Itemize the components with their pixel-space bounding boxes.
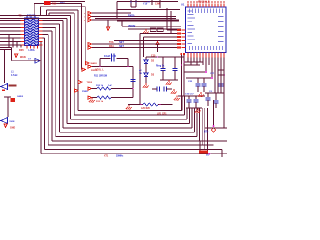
net port arrow bbox=[88, 12, 92, 15]
net port arrow down bbox=[107, 27, 110, 30]
connector J1 bbox=[0, 84, 8, 90]
wire down bbox=[139, 34, 141, 105]
junction bbox=[205, 71, 207, 73]
net port arrow bbox=[88, 96, 92, 99]
pin box U1 bbox=[177, 29, 181, 31]
svg-text:U1: U1 bbox=[181, 3, 185, 7]
wire bbox=[20, 45, 22, 48]
wire bbox=[195, 77, 207, 79]
net port arrow bbox=[75, 89, 79, 92]
wire bbox=[217, 62, 219, 93]
junction bbox=[157, 56, 159, 58]
transformer T1 bottom pins bbox=[27, 46, 38, 49]
ground bbox=[195, 108, 201, 113]
wire bbox=[122, 25, 181, 27]
wire bbox=[199, 141, 201, 151]
wire bus rise bbox=[186, 108, 188, 119]
wire to T1 bbox=[0, 41, 21, 43]
wire bbox=[117, 20, 179, 22]
wire down bbox=[143, 37, 145, 57]
svg-text:R11 10R/1W: R11 10R/1W bbox=[94, 75, 108, 77]
wire bbox=[0, 47, 12, 49]
wire bus bottom bbox=[48, 144, 213, 146]
wire bbox=[215, 103, 217, 108]
svg-text:25MHz: 25MHz bbox=[116, 156, 124, 157]
net port arrow bbox=[88, 46, 92, 49]
wire bus horizontal bbox=[43, 27, 56, 29]
wire bus horizontal bbox=[43, 34, 49, 36]
wire bus rise bbox=[206, 108, 208, 154]
wire bbox=[184, 71, 206, 73]
wire bus vertical bbox=[44, 38, 46, 149]
wire bus horizontal bbox=[43, 37, 45, 39]
wire U1 pin down bbox=[190, 58, 192, 66]
capacitor C19 bbox=[193, 100, 198, 102]
wire bus rise bbox=[183, 96, 185, 115]
junction bbox=[181, 64, 183, 66]
svg-text:IP101A LF: IP101A LF bbox=[198, 1, 210, 4]
svg-text:BT+: BT+ bbox=[204, 131, 209, 133]
component box bbox=[150, 28, 156, 32]
svg-text:GND2: GND2 bbox=[17, 96, 24, 98]
wire bus vertical bbox=[73, 13, 75, 115]
svg-text:_NET: _NET bbox=[117, 46, 124, 48]
resistor R12 bbox=[97, 87, 111, 90]
wire bbox=[223, 62, 225, 93]
pin box U1 bbox=[177, 43, 181, 45]
capacitor C13 bbox=[172, 69, 177, 71]
wire bus bottom bbox=[41, 153, 227, 155]
wire bbox=[116, 2, 118, 19]
ground bbox=[171, 89, 177, 94]
wire bbox=[92, 97, 98, 99]
wire bbox=[218, 74, 224, 76]
wire TXA_NET bbox=[92, 43, 182, 45]
wire to T1 bbox=[0, 44, 21, 46]
U1 pin names right bbox=[218, 16, 224, 42]
wire to T1 bbox=[0, 20, 21, 22]
wire bbox=[223, 93, 225, 128]
pin stub bbox=[180, 53, 182, 55]
ground bbox=[143, 83, 149, 88]
net diamond bbox=[211, 128, 216, 133]
wire bbox=[0, 15, 71, 17]
wire bbox=[8, 35, 10, 48]
wire bbox=[166, 8, 168, 30]
svg-text:TXD2: TXD2 bbox=[87, 82, 93, 84]
net port arrow bbox=[78, 81, 82, 84]
wire T1 pin bbox=[17, 41, 21, 43]
wire bus vertical bbox=[58, 24, 60, 132]
wire to U1 bbox=[167, 29, 181, 31]
wire bbox=[99, 59, 101, 67]
wire bus bottom bbox=[56, 136, 197, 138]
svg-text:LX5A: LX5A bbox=[29, 49, 35, 52]
wire TXD bbox=[92, 16, 177, 18]
wire U1 pin down bbox=[205, 58, 207, 73]
U1 bottom pins bbox=[188, 53, 224, 58]
U1 pin names left bbox=[188, 11, 196, 44]
capacitor C21 bbox=[205, 98, 210, 100]
wire to U1 bbox=[140, 33, 181, 35]
wire RXA_NET bbox=[92, 47, 182, 49]
wire bus bottom bbox=[74, 114, 184, 116]
wire bus vertical bbox=[62, 21, 64, 128]
wire bus bottom bbox=[63, 127, 192, 129]
wire bbox=[207, 93, 209, 97]
wire bbox=[186, 107, 202, 109]
wire T1 pin bbox=[20, 44, 23, 46]
svg-text:XT1: XT1 bbox=[104, 156, 109, 157]
svg-text:WAN: WAN bbox=[20, 56, 26, 59]
net port arrow bbox=[88, 87, 92, 90]
ground bbox=[174, 96, 180, 101]
label bbox=[9, 85, 17, 87]
svg-text:R10: R10 bbox=[52, 3, 57, 6]
wire bus rise bbox=[181, 96, 183, 111]
wire bbox=[220, 86, 222, 92]
wire bus vertical bbox=[40, 42, 42, 154]
wire bus rise bbox=[199, 108, 201, 141]
wire U1 pin down bbox=[202, 58, 204, 66]
wire bbox=[203, 86, 205, 92]
ground bbox=[198, 92, 204, 97]
transformer T1 body bbox=[25, 18, 39, 46]
svg-text:R12 1k: R12 1k bbox=[96, 85, 104, 87]
svg-text:10uF C10: 10uF C10 bbox=[104, 54, 116, 58]
wire bus bottom bbox=[67, 123, 190, 125]
svg-text:5VIN: 5VIN bbox=[10, 121, 15, 123]
svg-text:12M: 12M bbox=[155, 2, 160, 5]
resistor R13 bbox=[97, 96, 111, 99]
wire bus rise bbox=[191, 108, 193, 128]
svg-text:R13 1k: R13 1k bbox=[96, 101, 104, 103]
wire bbox=[7, 97, 9, 117]
U1 pin names top bbox=[189, 9, 223, 13]
svg-text:L20 R20: L20 R20 bbox=[141, 108, 151, 110]
svg-text:PWR1: PWR1 bbox=[82, 91, 89, 93]
capacitor C25 bbox=[195, 84, 200, 86]
wire bus horizontal bbox=[0, 15, 71, 17]
wire U1 pin down bbox=[223, 58, 225, 76]
op-amp U1 body bbox=[186, 7, 227, 53]
junction bbox=[140, 104, 142, 106]
wire bbox=[127, 59, 129, 67]
capacitor C27 bbox=[218, 84, 223, 86]
diode D2 bbox=[144, 60, 148, 64]
junction bbox=[159, 104, 161, 106]
junction bbox=[127, 66, 129, 68]
wire U1 pin down bbox=[196, 58, 198, 66]
wire bbox=[166, 88, 172, 90]
wire bus vertical short bbox=[84, 7, 86, 63]
wire bbox=[4, 96, 11, 98]
wire T1 pin bbox=[9, 34, 21, 36]
wire bus horizontal bbox=[43, 23, 60, 25]
wire bbox=[220, 75, 222, 83]
wire bus bottom bbox=[45, 148, 223, 150]
wire bus rise bbox=[189, 108, 191, 124]
pin box U1 bbox=[177, 39, 181, 41]
wire bus rise bbox=[196, 108, 198, 137]
svg-text:LR1 CR1: LR1 CR1 bbox=[157, 114, 167, 116]
wire bbox=[4, 50, 6, 84]
transformer T1 left pins bbox=[21, 21, 25, 46]
wire bbox=[181, 53, 183, 110]
wire bbox=[160, 79, 178, 81]
wire to T1 bbox=[0, 27, 21, 29]
wire bus horizontal bbox=[47, 9, 78, 11]
wire bbox=[203, 78, 205, 83]
component R1 (red block) bbox=[44, 1, 51, 5]
wire top bbox=[51, 1, 86, 3]
connector J2 bbox=[0, 118, 8, 124]
ground bbox=[166, 80, 172, 85]
net port arrow bbox=[88, 19, 92, 22]
wire bbox=[183, 53, 185, 96]
svg-text:TXA: TXA bbox=[109, 41, 114, 44]
wire bbox=[11, 48, 13, 61]
U1 pin names bottom bbox=[189, 46, 223, 50]
ground bbox=[126, 105, 132, 110]
wire bbox=[0, 49, 12, 51]
wire bbox=[188, 102, 190, 108]
net port arrow bbox=[88, 15, 92, 18]
svg-text:C16 C17: C16 C17 bbox=[185, 94, 194, 96]
svg-text:WAN1: WAN1 bbox=[91, 62, 98, 65]
pin box U1 bbox=[177, 36, 181, 38]
wire U1 pin down bbox=[220, 58, 222, 66]
wire bbox=[221, 149, 223, 157]
capacitor C22 bbox=[213, 101, 218, 103]
wire bus bottom bbox=[71, 118, 187, 120]
wire bbox=[207, 100, 209, 106]
wire bbox=[174, 71, 176, 81]
wire bbox=[157, 45, 159, 53]
transformer T1 top pins bbox=[27, 16, 35, 19]
wire bbox=[48, 13, 50, 16]
capacitor C11 bbox=[130, 80, 135, 82]
junction bbox=[211, 77, 213, 79]
wire bbox=[40, 7, 42, 16]
capacitor C14 bbox=[157, 86, 160, 91]
wire to T1 bbox=[0, 37, 21, 39]
wire to U1 bbox=[144, 36, 182, 38]
wire bbox=[184, 61, 203, 63]
U1 bottom pin numbers bbox=[187, 58, 224, 60]
wire bbox=[100, 58, 111, 60]
wire bbox=[12, 38, 14, 48]
wire bbox=[135, 0, 137, 7]
terminal bbox=[130, 1, 132, 3]
pin box U1 bbox=[177, 32, 181, 34]
wire bbox=[146, 56, 184, 58]
wire bbox=[111, 88, 133, 90]
resistor R20 bbox=[143, 103, 158, 106]
svg-text:RX5: RX5 bbox=[19, 49, 24, 52]
wire bus horizontal bbox=[41, 6, 86, 8]
capacitor C26 bbox=[201, 84, 206, 86]
junction bbox=[183, 61, 185, 63]
wire bbox=[145, 64, 147, 73]
wire bus vertical short bbox=[81, 4, 83, 70]
U1 left pins bbox=[182, 30, 186, 48]
connector arrow bbox=[35, 58, 40, 63]
component box bbox=[157, 28, 163, 32]
junction bbox=[209, 153, 211, 155]
wire bbox=[121, 21, 123, 26]
wire bbox=[213, 100, 215, 127]
wire bbox=[151, 0, 153, 5]
wire collector bbox=[178, 95, 205, 97]
ground bbox=[143, 29, 149, 34]
wire bus horizontal bbox=[0, 17, 67, 19]
wire bbox=[92, 66, 134, 68]
svg-text:7B: 7B bbox=[139, 73, 142, 75]
wire top right bbox=[117, 1, 178, 3]
terminal bbox=[135, 1, 137, 3]
transformer T1 windings bbox=[25, 19, 38, 45]
wire bus bottom bbox=[78, 110, 182, 112]
wire bbox=[197, 78, 199, 83]
power arrow bbox=[156, 42, 159, 45]
wire bus bottom bbox=[59, 131, 194, 133]
wire bbox=[184, 64, 200, 66]
ground bbox=[89, 98, 95, 103]
wire to T1 bbox=[0, 23, 21, 25]
capacitor C18 bbox=[186, 100, 191, 102]
wire bbox=[186, 77, 212, 79]
net port arrow bbox=[88, 65, 92, 68]
wire bus vertical bbox=[47, 35, 49, 146]
wire bbox=[145, 77, 147, 83]
wire bbox=[12, 60, 41, 62]
net port arrow down bbox=[4, 124, 7, 127]
junction bbox=[132, 88, 134, 90]
wire bbox=[205, 127, 227, 129]
wire U1 pin down bbox=[217, 58, 219, 71]
wire bus horizontal bbox=[41, 41, 43, 43]
wire bbox=[128, 28, 181, 30]
wire to U1 bbox=[114, 40, 181, 42]
wire U1 pin down bbox=[214, 58, 216, 66]
svg-text:4.7uH: 4.7uH bbox=[11, 74, 18, 77]
wire bbox=[130, 0, 132, 7]
capacitor C15b bbox=[164, 86, 167, 91]
svg-text:Ring 1k: Ring 1k bbox=[156, 66, 165, 68]
net port arrow bbox=[82, 68, 86, 71]
wire bbox=[128, 104, 143, 106]
wire bbox=[195, 102, 197, 108]
wire bbox=[33, 4, 35, 16]
wire U1 pin down bbox=[199, 58, 201, 63]
U1 top pins bbox=[188, 4, 224, 8]
wire bbox=[111, 97, 133, 99]
pin box U1 bbox=[177, 46, 181, 48]
junction bbox=[99, 66, 101, 68]
wire bbox=[158, 104, 173, 106]
wire bbox=[131, 6, 136, 8]
connector J1 red tick bbox=[2, 90, 5, 91]
U1 top pin numbers bbox=[187, 1, 224, 3]
capacitor C12 bbox=[160, 69, 165, 71]
wire U1 pin down bbox=[208, 58, 210, 66]
junction bbox=[213, 125, 215, 127]
wire bus vertical bbox=[51, 31, 53, 141]
wire bus rise bbox=[194, 108, 196, 132]
net port arrow down bbox=[15, 54, 18, 57]
wire bus rise bbox=[204, 108, 206, 149]
wire bus bottom bbox=[52, 140, 200, 142]
wire bus horizontal bbox=[43, 20, 64, 22]
wire bbox=[162, 57, 164, 68]
wire bbox=[0, 17, 67, 19]
wire bus vertical bbox=[55, 28, 57, 137]
wire RXD bbox=[92, 12, 132, 14]
wire bbox=[145, 57, 147, 60]
transformer T1 right pins bbox=[39, 21, 43, 46]
wire bus horizontal bbox=[43, 30, 53, 32]
svg-text:RXA: RXA bbox=[109, 45, 114, 48]
wire to T1 bbox=[0, 34, 21, 36]
wire bus horizontal bbox=[34, 3, 81, 5]
wire bbox=[170, 11, 172, 34]
wire bbox=[195, 96, 197, 100]
wire bbox=[46, 10, 48, 16]
wire bbox=[16, 42, 18, 48]
wire U1 pin down bbox=[211, 58, 213, 79]
wire bus rise bbox=[201, 108, 203, 145]
wire bbox=[205, 92, 224, 94]
wire bbox=[159, 0, 161, 8]
svg-text:VDDIO: VDDIO bbox=[128, 26, 135, 28]
wire to T1 bbox=[0, 30, 21, 32]
wire bbox=[215, 93, 217, 100]
wire T1 pin bbox=[13, 37, 21, 39]
wire bbox=[95, 17, 176, 19]
net port arrow bbox=[88, 43, 92, 46]
wire bbox=[197, 86, 199, 92]
wire U1 pin down bbox=[193, 58, 195, 63]
junction bbox=[223, 74, 225, 76]
wire bbox=[117, 58, 129, 60]
pin stub bbox=[183, 53, 185, 55]
wire bbox=[174, 57, 176, 68]
wire bbox=[162, 71, 164, 81]
wire bus vertical bbox=[70, 16, 72, 120]
wire bbox=[92, 19, 180, 21]
svg-text:1uF: 1uF bbox=[108, 85, 113, 87]
wire U1 pin down bbox=[187, 58, 189, 63]
diode D3 bbox=[144, 73, 148, 77]
svg-text:_NET: _NET bbox=[117, 42, 124, 44]
wire bbox=[107, 20, 109, 27]
wire bus vertical bbox=[66, 18, 68, 123]
wire bus horizontal bbox=[49, 12, 74, 14]
capacitor C10 bbox=[112, 54, 115, 62]
svg-text:ADSL_L: ADSL_L bbox=[95, 68, 105, 71]
wire bus vertical bbox=[77, 10, 79, 111]
net port arrow bbox=[86, 62, 90, 65]
wire bbox=[214, 62, 216, 93]
wire bbox=[117, 8, 180, 10]
wire bbox=[152, 88, 157, 90]
wire bbox=[92, 88, 98, 90]
svg-text:RXD0: RXD0 bbox=[128, 14, 135, 17]
wire bbox=[200, 140, 227, 142]
wire bbox=[132, 67, 134, 98]
component (red) bbox=[11, 98, 15, 102]
